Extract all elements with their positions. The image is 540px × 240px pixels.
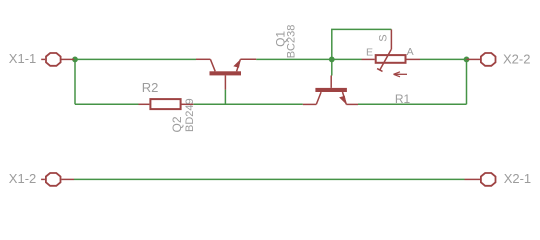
- transistor Q1: [196, 59, 256, 89]
- svg-text:E: E: [366, 46, 373, 58]
- wire top: Q1 emitter to pot E: [256, 58, 361, 60]
- wire: Q2 base: [331, 59, 333, 75]
- wire: X1-1 node down: [74, 59, 76, 104]
- svg-text:R1: R1: [395, 92, 411, 106]
- junction node A: [72, 57, 78, 63]
- wire: Q1 base: [224, 90, 226, 105]
- wire bottom: R2 to Q2 collector: [193, 103, 302, 105]
- potentiometer R1: [362, 29, 421, 76]
- transistor Q2: [303, 76, 358, 105]
- wire bottom: node A to R2: [75, 103, 139, 105]
- pin X2-1: [465, 173, 496, 186]
- svg-text:A: A: [407, 46, 414, 58]
- wire top: X1-1 node to Q1 collector: [75, 58, 196, 60]
- wire: node B up and over to pot S: [332, 29, 392, 59]
- pin X1-2 outer tick: [41, 178, 45, 180]
- svg-text:X2-2: X2-2: [503, 51, 530, 66]
- wire bottom rail X1-2 to X2-1: [74, 178, 465, 180]
- svg-text:R2: R2: [142, 80, 159, 95]
- resistor R2: [139, 99, 194, 109]
- pin X2-2: [467, 53, 496, 66]
- pin X1-1 outer tick: [41, 58, 45, 60]
- wire: right vertical to X2-2 node: [466, 59, 468, 104]
- wire bottom: Q2 emitter to right vertical: [358, 103, 467, 105]
- svg-text:BC238: BC238: [286, 25, 298, 59]
- pin X1-1: [46, 53, 74, 66]
- junction node B: [329, 57, 335, 63]
- svg-text:BD249: BD249: [184, 98, 196, 132]
- svg-text:X2-1: X2-1: [504, 171, 531, 186]
- svg-text:X1-1: X1-1: [9, 51, 36, 66]
- pin X1-2: [46, 173, 74, 186]
- wire top: pot A to X2-2 node: [420, 58, 467, 60]
- svg-text:X1-2: X1-2: [9, 171, 36, 186]
- junction node C: [464, 57, 470, 63]
- svg-text:Q2: Q2: [170, 116, 184, 132]
- svg-text:S: S: [377, 34, 389, 41]
